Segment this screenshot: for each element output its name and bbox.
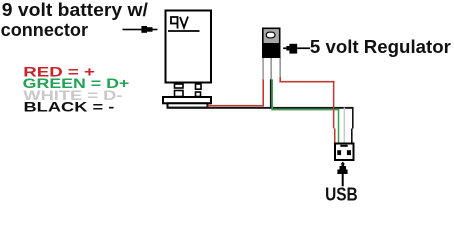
arrow to regulator [283,44,310,54]
white D- wire to USB [344,108,346,144]
regulator U1 body (5 volt regulator) [262,28,281,61]
connector stud left [175,91,184,97]
regulator U1 left pin [262,58,263,80]
black wire from regulator middle pin down [270,79,272,108]
USB connector J1 body [335,144,354,161]
connector stud right [196,92,201,97]
USB connector slot [340,145,347,147]
svg-text:BLACK = -: BLACK = - [24,99,115,114]
svg-text:connector: connector [1,20,88,40]
regulator U1 right pin [279,58,281,78]
red +9V wire from connector to regulator input [208,105,265,107]
battery snap connector bottom bar [168,103,208,107]
svg-text:USB: USB [325,185,358,205]
USB connector pin left [337,150,341,155]
red 5V output wire from right pin to USB [279,77,281,83]
green D+ wire from middle pin down and right to USB [271,79,273,110]
label: 9 volt battery w/ connector [1,0,148,40]
arrow to USB (pointing up) [337,162,347,187]
battery terminal right [196,84,202,89]
svg-text:9 volt battery w/: 9 volt battery w/ [2,0,148,20]
battery 9V label [168,17,200,32]
arrow to battery [123,26,158,33]
svg-text:5 volt Regulator: 5 volt Regulator [310,37,451,57]
black wire vertical to USB [352,107,354,129]
battery snap connector top bar [163,97,211,103]
USB connector pin right [347,150,351,155]
battery terminal left [175,84,184,88]
regulator U1 middle pin [270,58,272,80]
black ground wire from connector to USB [167,107,354,109]
battery BT1 body [166,11,212,83]
